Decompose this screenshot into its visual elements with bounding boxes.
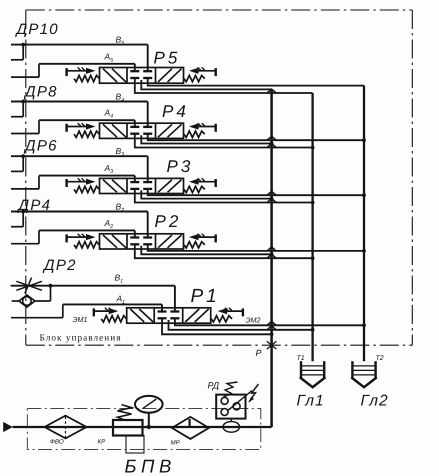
wire P1 exhaust to Гл2 bus	[175, 318, 366, 327]
wire B1 to valve	[51, 286, 175, 312]
wire B3	[11, 156, 148, 182]
label B1	[115, 273, 124, 285]
label Р5	[154, 49, 181, 68]
svg-text:ЭМ1: ЭМ1	[73, 315, 88, 324]
valve P3 right spring	[184, 186, 205, 192]
label ЭМ1	[73, 315, 88, 324]
valve P2 left section crossed paths	[103, 235, 126, 248]
valve P2 left spring	[74, 242, 99, 248]
valve P3 body	[100, 178, 184, 193]
label Р4	[162, 102, 189, 121]
Гл2 exhaust bus	[363, 86, 365, 362]
wire P5 exhaust to Гл1 bus	[135, 78, 313, 93]
label A3	[104, 163, 114, 175]
throttle ДР2 adjustable symbol	[16, 278, 42, 294]
label ФВО	[50, 439, 64, 446]
svg-text:Р4: Р4	[162, 102, 189, 121]
crossing mark Р bus over frame	[267, 341, 277, 349]
РД electric output (lightning)	[249, 384, 259, 402]
silencer T2 (Гл2)	[351, 361, 377, 387]
valve P5 body	[100, 68, 184, 84]
wire P2 exhaust to Гл2 bus	[148, 244, 366, 253]
wire P1 pressure to Р bus	[162, 318, 274, 336]
wire A4	[39, 120, 135, 127]
wire P2 pressure to Р bus	[141, 246, 273, 256]
pressure regulator КР	[113, 405, 144, 453]
port B3 tab	[11, 154, 25, 171]
label Т1	[297, 355, 305, 362]
label B4	[116, 92, 125, 104]
valve P1 left spring	[101, 316, 126, 322]
label Блок управления	[40, 332, 122, 342]
РД sensing element	[223, 419, 240, 433]
main air line	[13, 426, 272, 428]
valve P2 middle section ports	[130, 238, 152, 245]
valve P5 left actuator (electromagnet)	[67, 67, 96, 76]
valve P5 right spring	[184, 75, 205, 81]
svg-text:Р: Р	[256, 348, 262, 358]
silencer T1 (Гл1)	[300, 361, 326, 387]
port A3 tab	[11, 176, 39, 189]
valve P4 right section paths	[158, 124, 182, 137]
valve P1 left actuator (electromagnet)	[94, 308, 118, 317]
РД spring	[224, 382, 238, 397]
valve P4 body	[100, 123, 184, 138]
valve P5 middle section ports	[130, 71, 152, 78]
valve P2 left actuator (electromagnet)	[67, 234, 96, 243]
filter ФВО	[45, 416, 87, 439]
check valve (bypass of ДР2)	[12, 284, 53, 307]
valve P1 right actuator (electromagnet)	[218, 308, 243, 317]
svg-text:Гл1: Гл1	[297, 393, 325, 410]
label ДР6	[23, 138, 58, 155]
svg-text:ДР10: ДР10	[15, 21, 59, 38]
valve P1 right spring	[211, 316, 232, 322]
wire P5 pressure to Р bus	[141, 80, 271, 89]
valve P5 right actuator (electromagnet)	[189, 67, 216, 76]
svg-text:ДР6: ДР6	[23, 138, 58, 155]
label A5	[104, 51, 114, 63]
label B5	[116, 35, 125, 47]
valve P1 left section crossed paths	[130, 309, 153, 322]
valve P2 right spring	[184, 242, 205, 248]
label Р (pressure line)	[256, 348, 262, 358]
label Гл2	[361, 393, 389, 410]
valve P3 left spring	[74, 186, 99, 192]
wire A1	[63, 304, 162, 311]
label Р1	[191, 286, 220, 307]
svg-text:Р3: Р3	[167, 157, 194, 176]
wire P3 exhaust to Гл2 bus	[148, 189, 366, 197]
port A1 tab	[11, 304, 63, 317]
wire P2 exhaust to Гл1 bus	[135, 244, 315, 260]
valve P5 right section paths	[158, 69, 182, 82]
svg-text:Блок управления: Блок управления	[40, 332, 122, 342]
wire A3	[39, 176, 135, 183]
wire A2	[39, 230, 135, 237]
valve P1 body	[127, 308, 211, 323]
label Гл1	[297, 393, 325, 410]
valve P1 middle section ports	[158, 312, 180, 319]
valve P4 right spring	[184, 131, 205, 137]
wire P3 pressure to Р bus	[141, 190, 273, 200]
label РД	[208, 381, 220, 391]
valve P2 body	[100, 234, 184, 249]
valve P1 right section paths	[185, 309, 209, 322]
svg-text:Т1: Т1	[297, 355, 305, 362]
label БПВ	[125, 456, 176, 476]
air inlet arrow	[3, 422, 13, 432]
wire B1 left	[11, 285, 51, 287]
valve P2 right section paths	[158, 235, 182, 248]
valve P4 left actuator (electromagnet)	[67, 123, 96, 132]
wire B2	[11, 212, 148, 238]
wire B4	[11, 102, 148, 127]
valve P3 right section paths	[158, 180, 182, 193]
svg-text:ДР8: ДР8	[23, 84, 58, 101]
label Р3	[167, 157, 194, 176]
valve P4 left spring	[74, 131, 99, 137]
label МР	[171, 440, 181, 447]
control block boundary frame (dash-dot)	[26, 10, 413, 345]
lubricator МР	[172, 417, 209, 439]
label ДР8	[23, 84, 58, 101]
port B4 tab	[11, 100, 25, 117]
port A2 tab	[11, 230, 39, 243]
wire A5	[39, 64, 135, 71]
svg-text:Гл2: Гл2	[361, 393, 389, 410]
port A5 tab	[11, 64, 39, 77]
svg-text:ФВО: ФВО	[50, 439, 64, 446]
port B5 tab	[11, 43, 25, 60]
svg-text:ДР2: ДР2	[42, 257, 77, 274]
wire P4 exhaust to Гл1 bus	[135, 134, 315, 150]
valve P4 right actuator (electromagnet)	[189, 123, 216, 132]
label A4	[104, 108, 114, 120]
svg-text:Т2: Т2	[376, 355, 384, 362]
port B2 tab	[11, 210, 25, 227]
label ЭМ2	[246, 316, 261, 325]
label B3	[116, 146, 125, 158]
valve P4 left section crossed paths	[103, 124, 126, 137]
valve P3 right actuator (electromagnet)	[189, 178, 216, 187]
pressure gauge МН	[135, 396, 163, 429]
label Т2	[376, 355, 384, 362]
pressure switch РД	[216, 391, 252, 419]
svg-text:КР: КР	[98, 439, 107, 446]
svg-text:МР: МР	[171, 440, 181, 447]
valve P3 left section crossed paths	[103, 180, 126, 193]
label Р2	[155, 212, 182, 231]
label ДР4	[17, 197, 52, 214]
Гл1 exhaust bus	[311, 93, 313, 361]
svg-text:Р5: Р5	[154, 49, 181, 68]
label ДР10	[15, 21, 59, 38]
svg-text:Р1: Р1	[191, 286, 220, 307]
wire P3 exhaust to Гл1 bus	[135, 189, 315, 205]
wire P1 exhaust to Гл1 bus	[169, 320, 315, 332]
svg-text:БПВ: БПВ	[125, 456, 176, 476]
label ДР2	[42, 257, 77, 274]
label КР	[98, 439, 107, 446]
svg-text:ЭМ2: ЭМ2	[246, 316, 261, 325]
valve P3 middle section ports	[130, 182, 152, 189]
wire P4 pressure to Р bus	[141, 135, 273, 145]
БПВ boundary frame (dash-dot)	[27, 409, 260, 450]
label B2	[116, 202, 125, 214]
Р pressure bus	[270, 89, 273, 427]
wire P4 exhaust to Гл2 bus	[148, 134, 366, 142]
svg-text:Р2: Р2	[155, 212, 182, 231]
wire P5 exhaust to Гл2 bus	[148, 78, 364, 86]
valve P5 left spring	[74, 75, 99, 81]
label A2	[104, 218, 114, 230]
valve P4 middle section ports	[130, 127, 152, 134]
svg-text:РД: РД	[208, 381, 220, 391]
port A4 tab	[11, 120, 39, 133]
valve P5 left section crossed paths	[103, 69, 126, 82]
valve P2 right actuator (electromagnet)	[189, 234, 216, 243]
valve P3 left actuator (electromagnet)	[67, 178, 96, 187]
label A1	[116, 293, 126, 305]
wire B5	[11, 45, 148, 72]
